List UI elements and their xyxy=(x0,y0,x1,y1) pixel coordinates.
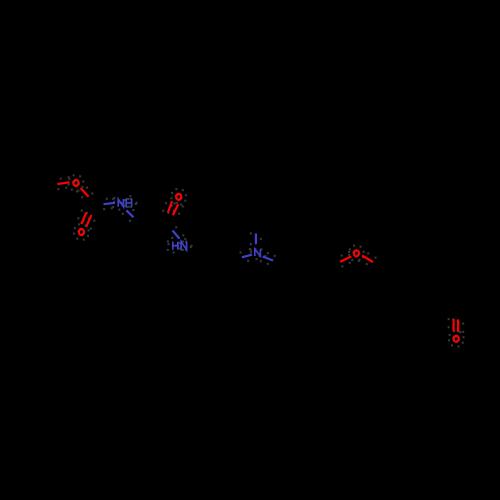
node H of NH carbamate xyxy=(126,199,131,207)
node N of NH carbamate xyxy=(118,199,123,207)
node N tertiary amine xyxy=(255,249,261,256)
wire bond C carbonyl-N H carbamate (blue half) xyxy=(104,203,116,204)
wire Boc C=O double bond line 2 xyxy=(86,215,91,227)
wire amide C=O double bond line 1 xyxy=(168,201,172,212)
wire bond O ester-C carbonyl (red half) xyxy=(81,188,89,197)
atom O amide carbonyl xyxy=(176,194,181,200)
wire bond N-CH3 (blue half) xyxy=(255,233,257,244)
wire Boc C=O double bond line 1 xyxy=(81,213,86,225)
atom O carbonyl (Boc) xyxy=(79,229,84,235)
atom O ether xyxy=(354,250,359,256)
wire bond ring C-N (blue half, left) xyxy=(242,255,252,258)
wire acetyl C=O double bond line 1 xyxy=(453,319,455,331)
wire acetyl C=O double bond line 2 xyxy=(457,319,459,332)
node N of HN amide xyxy=(181,242,187,250)
wire bond C(CH3)3-O ester (red half) xyxy=(57,182,69,184)
wire bond CH2-O ether (red half) xyxy=(340,257,351,262)
wire bond NH-C alpha (blue half) xyxy=(126,210,133,217)
wire bond O ether-C aryl (red half) xyxy=(362,256,373,263)
atom O acetyl ketone xyxy=(454,336,459,342)
atom O ester (Boc) xyxy=(74,180,79,186)
wire amide C=O double bond line 2 xyxy=(173,204,179,215)
node H of HN amide xyxy=(173,242,178,250)
wire bond amide C-NH (blue half) xyxy=(173,231,180,239)
wire bond N-CH2 chain (blue half, right) xyxy=(263,257,273,261)
